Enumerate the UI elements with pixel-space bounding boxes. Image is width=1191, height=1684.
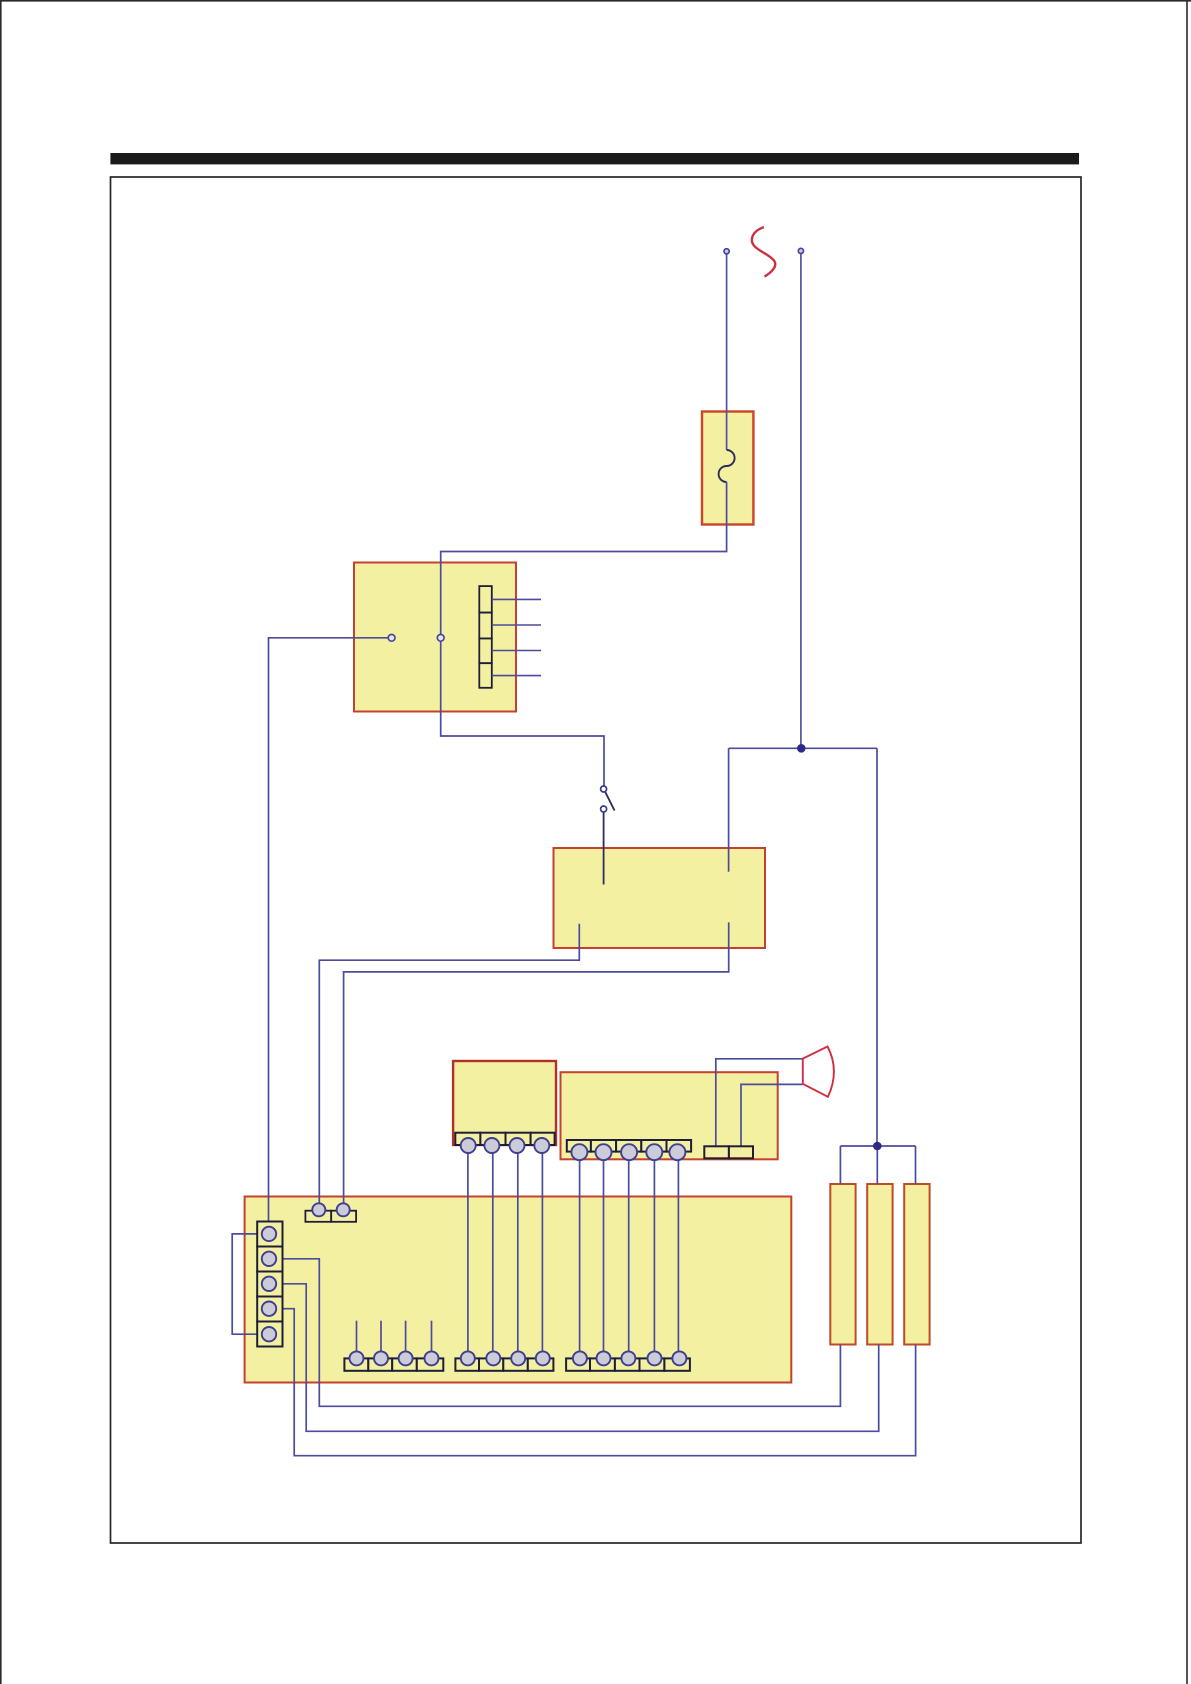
group3 pin 3	[621, 1351, 635, 1365]
group1 pin 2	[374, 1351, 388, 1365]
display connector pin 2	[484, 1138, 499, 1153]
wire: junction B drop to heater H3	[915, 1146, 917, 1184]
wire: strip pin3 to heater H2 return	[269, 1284, 879, 1432]
wire: display pin2 to PCB group2 pin2	[492, 1146, 494, 1358]
PCB group3 connector cells (5)	[566, 1358, 690, 1370]
relay/timer block body	[554, 848, 766, 948]
group2 pin 4	[536, 1351, 550, 1365]
group2 pin 3	[511, 1351, 525, 1365]
2-pin connector pin 2	[337, 1203, 350, 1216]
wire: group1 stub 3	[405, 1321, 407, 1352]
header bar	[110, 153, 1079, 164]
filter stack stub wire 1	[492, 598, 541, 600]
schematic border frame	[111, 177, 1082, 1543]
display block connector row (4 cells)	[455, 1133, 554, 1145]
group2 pin 1	[461, 1351, 475, 1365]
wire: display pin1 to PCB group2 pin1	[467, 1146, 469, 1358]
filter terminal left	[388, 634, 395, 641]
strip pin 4	[262, 1302, 276, 1316]
control block connector row (5 cells)	[567, 1140, 691, 1152]
wire: junction B horizontal	[840, 1145, 915, 1147]
wire: group1 stub 2	[380, 1321, 382, 1352]
wire: buzzer lead 1	[716, 1059, 803, 1147]
junction B	[873, 1142, 882, 1151]
display block body	[453, 1061, 556, 1145]
heater H2 body	[867, 1184, 892, 1345]
fuse element symbol inside F1	[719, 450, 735, 482]
wire: power terminal L down to fuse	[726, 254, 728, 450]
PCB 2-pin connector cells	[305, 1211, 356, 1222]
wire: junction A down right side to junction B	[876, 748, 878, 1146]
wire: display pin3 to PCB group2 pin3	[517, 1146, 519, 1358]
display connector pin 4	[534, 1138, 549, 1153]
group3 pin 4	[648, 1351, 662, 1365]
wire: power terminal N down to junction A	[800, 253, 802, 748]
filter stack stub wire 4	[492, 675, 541, 677]
wire: fuse out, left, down through filter to door switch	[441, 482, 727, 786]
wire: junction A drop to relay block	[728, 748, 730, 871]
heater H1 body	[830, 1184, 855, 1345]
wire: filter left terminal to main PCB strip pin1	[269, 638, 392, 1234]
display connector pin 3	[510, 1138, 525, 1153]
wire: strip bracket pin1-pin5	[232, 1234, 269, 1334]
PCB left strip connector (5 cells)	[257, 1222, 282, 1347]
filter stack stub wire 3	[492, 650, 541, 652]
control connector pin 1	[571, 1144, 587, 1160]
group3 pin 5	[672, 1351, 686, 1365]
display connector pin 1	[461, 1138, 476, 1153]
strip pin 1	[262, 1227, 276, 1241]
strip pin 2	[262, 1252, 276, 1266]
wire: strip pin2 to heater H1 return	[269, 1259, 840, 1407]
junction A	[797, 744, 806, 753]
door switch contact upper	[601, 786, 607, 792]
wire: relay out A to 2-pin connector pin1	[319, 924, 579, 1207]
page scan edges	[0, 0, 1191, 2]
filter terminal right	[437, 634, 444, 641]
wire: control pin2 to PCB group3 pin2	[603, 1152, 605, 1358]
noise filter block body	[354, 563, 516, 712]
filter stack stub wire 2	[492, 624, 541, 626]
filter connector stack (4 cells)	[479, 586, 492, 688]
group3 pin 2	[597, 1351, 611, 1365]
wire: group1 stub 4	[431, 1321, 433, 1352]
buzzer connector cells (2)	[704, 1146, 753, 1158]
control connector pin 2	[596, 1144, 612, 1160]
wire: display pin4 to PCB group2 pin4	[541, 1146, 543, 1358]
wire: control pin1 to PCB group3 pin1	[579, 1152, 581, 1358]
group1 pin 3	[399, 1351, 413, 1365]
power cord squiggle	[752, 227, 775, 276]
2-pin connector pin 1	[312, 1203, 325, 1216]
wire: control pin3 to PCB group3 pin3	[628, 1152, 630, 1358]
wire: strip pin4 to heater H3 return	[269, 1309, 916, 1456]
fuse F1 body	[702, 412, 753, 525]
wire: buzzer lead 2	[741, 1084, 803, 1146]
PCB group2 connector cells (4)	[455, 1358, 553, 1370]
buzzer horn	[803, 1047, 834, 1097]
group2 pin 2	[486, 1351, 500, 1365]
PCB group1 connector cells (4)	[344, 1358, 443, 1370]
main PCB block body	[245, 1197, 792, 1383]
wire: group1 stub 1	[356, 1321, 358, 1352]
door switch contact lower	[601, 806, 607, 812]
group3 pin 1	[573, 1351, 587, 1365]
control connector pin 5	[669, 1144, 685, 1160]
control block body	[561, 1072, 778, 1159]
strip pin 5	[262, 1327, 276, 1341]
power terminal N	[798, 248, 803, 253]
wire: door switch into relay block	[603, 812, 605, 885]
control connector pin 3	[621, 1144, 637, 1160]
wire: junction B drop to heater H2	[876, 1146, 878, 1184]
heater H3 body	[904, 1184, 929, 1345]
door switch blade	[605, 792, 615, 811]
power terminal L	[724, 249, 729, 254]
wire: control pin5 to PCB group3 pin5	[677, 1152, 679, 1358]
group1 pin 1	[350, 1351, 364, 1365]
wire: relay out B to 2-pin connector pin2	[344, 922, 729, 1207]
control connector pin 4	[646, 1144, 662, 1160]
strip pin 3	[262, 1277, 276, 1291]
wire: junction B drop to heater H1	[839, 1146, 841, 1184]
group1 pin 4	[425, 1351, 439, 1365]
wire: junction A horizontal	[729, 747, 877, 749]
wire: control pin4 to PCB group3 pin4	[653, 1152, 655, 1358]
